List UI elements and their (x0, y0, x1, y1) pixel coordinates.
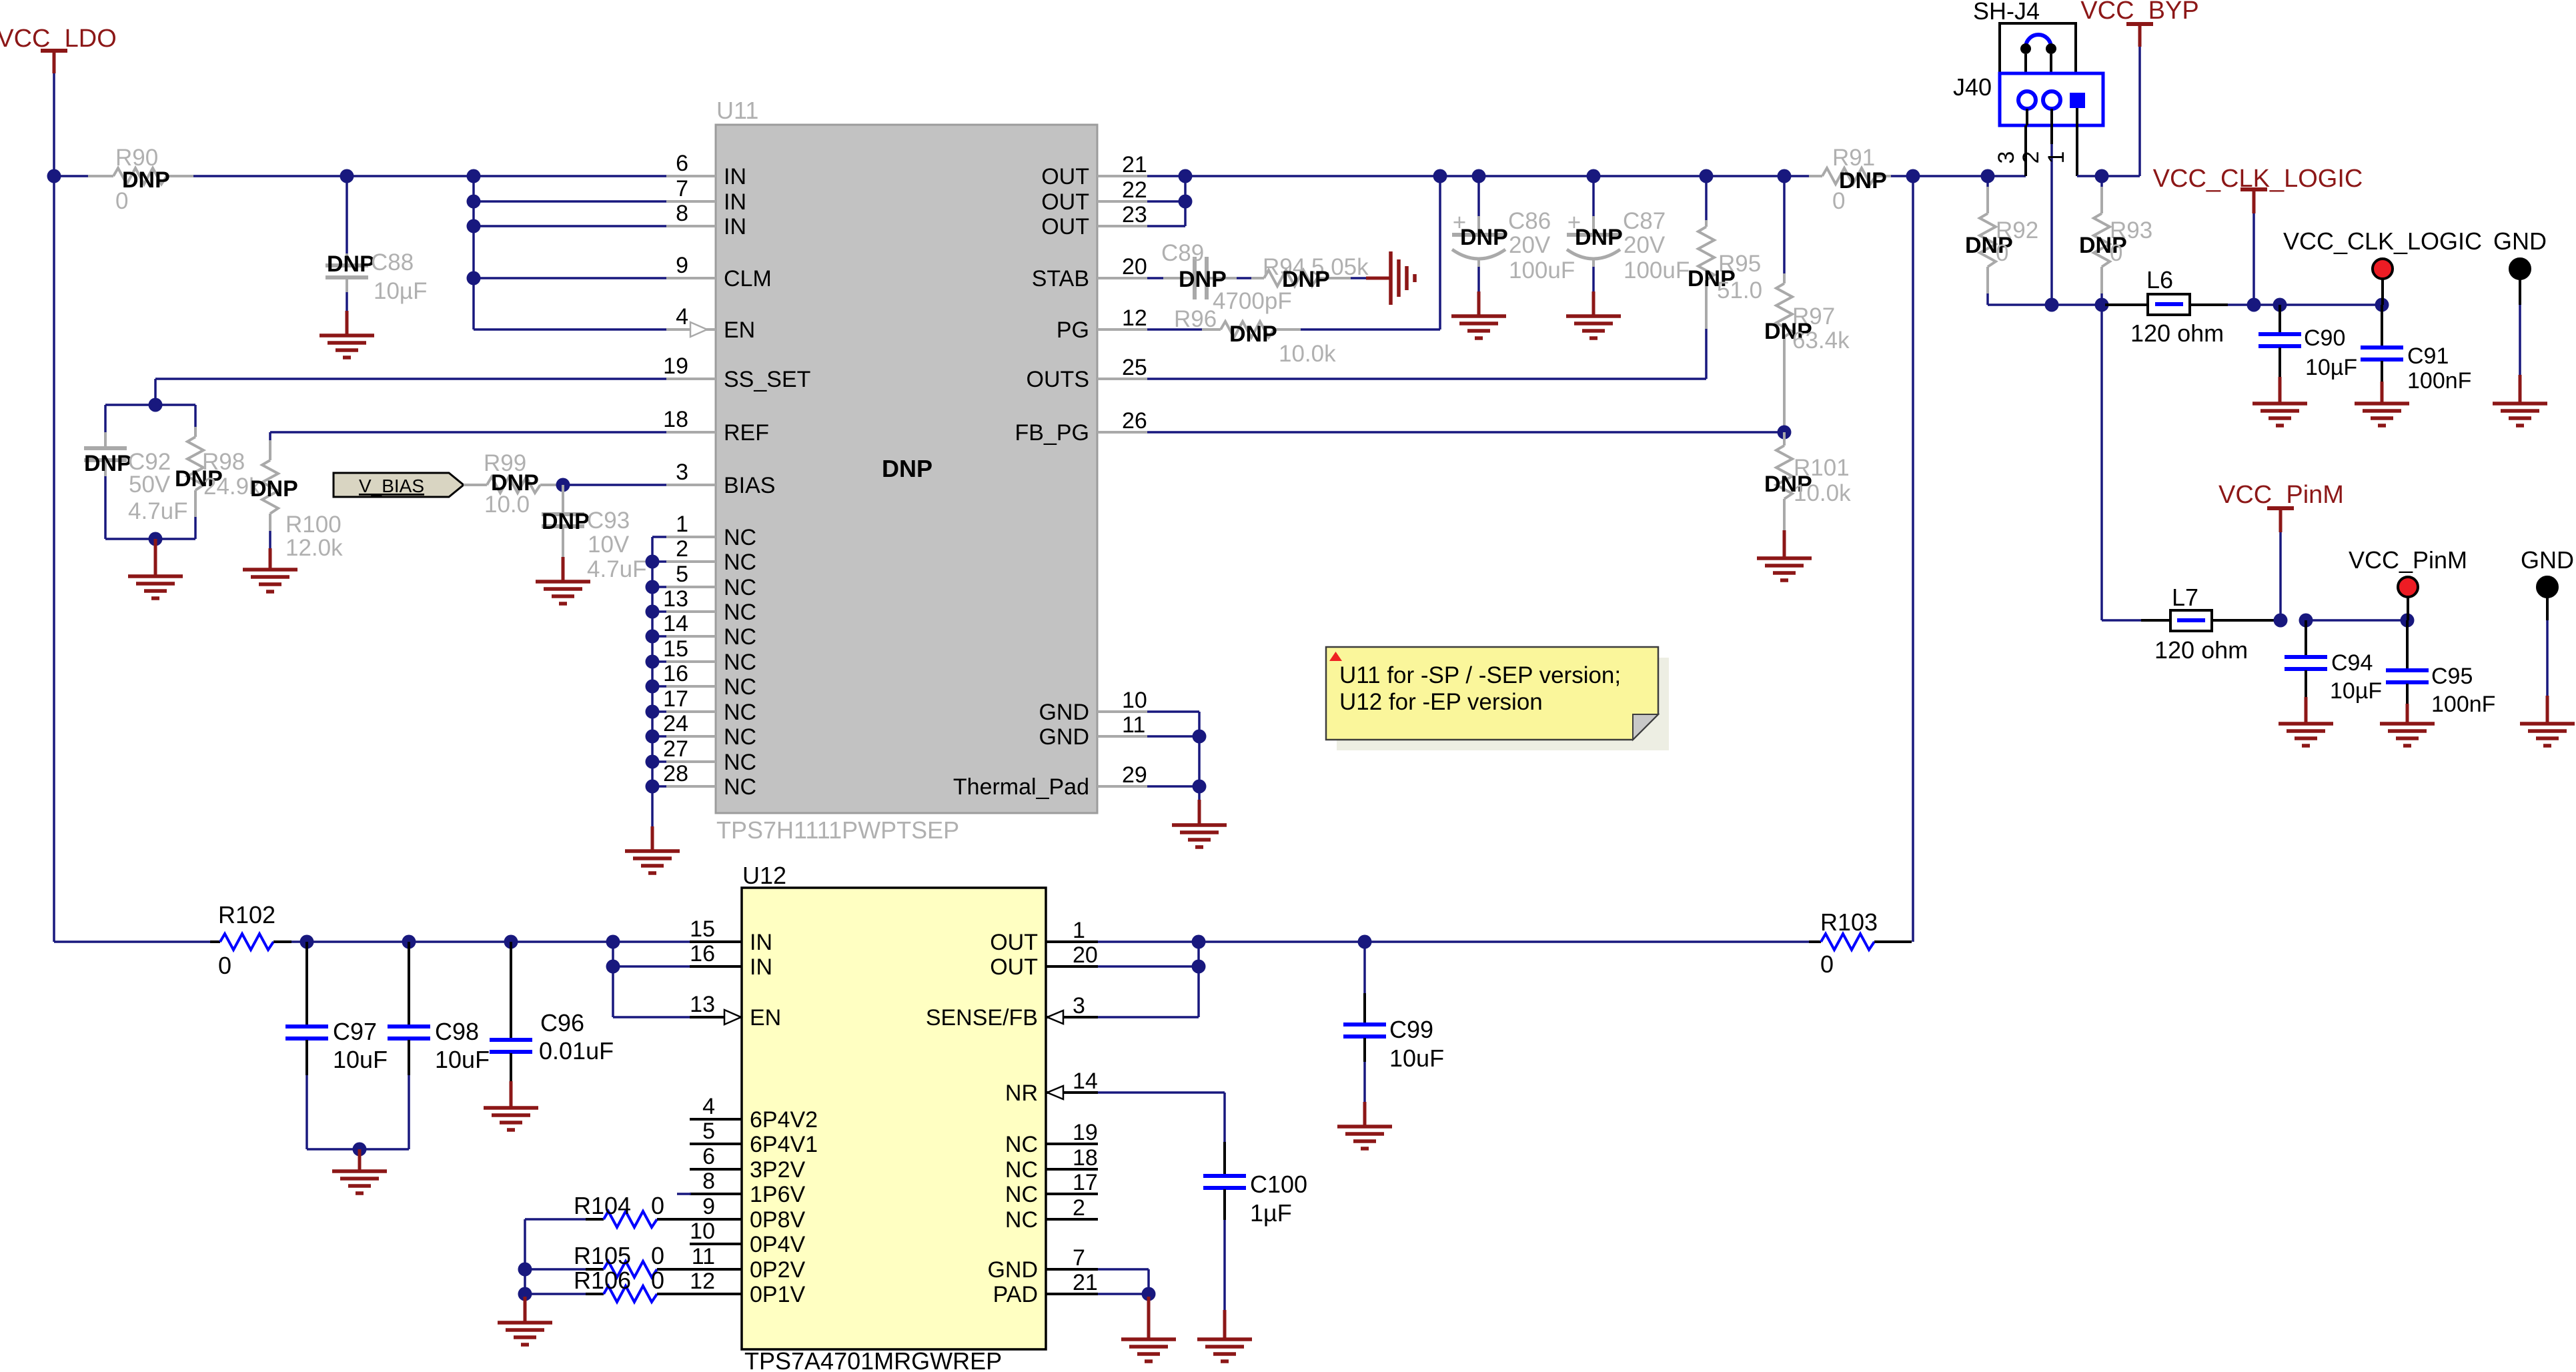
svg-text:DNP: DNP (1839, 168, 1887, 193)
svg-text:15: 15 (690, 916, 715, 942)
svg-text:0.01uF: 0.01uF (539, 1037, 614, 1065)
svg-text:16: 16 (663, 661, 688, 686)
svg-text:10uF: 10uF (1389, 1045, 1444, 1072)
svg-text:6: 6 (676, 151, 688, 176)
svg-text:J40: J40 (1953, 73, 1992, 101)
svg-text:NC: NC (724, 700, 756, 725)
svg-text:4700pF: 4700pF (1213, 288, 1292, 314)
svg-text:13: 13 (690, 992, 715, 1017)
svg-text:23: 23 (1122, 202, 1147, 227)
svg-text:6P4V2: 6P4V2 (750, 1107, 818, 1133)
svg-text:R106: R106 (574, 1267, 631, 1294)
svg-text:C97: C97 (333, 1018, 377, 1045)
svg-text:4.7uF: 4.7uF (587, 556, 647, 582)
svg-text:2: 2 (2018, 151, 2044, 164)
svg-text:GND: GND (1039, 724, 1089, 750)
svg-text:0: 0 (1820, 950, 1834, 978)
svg-text:SH-J4: SH-J4 (1973, 0, 2040, 25)
svg-text:1: 1 (2044, 151, 2069, 164)
svg-text:11: 11 (1122, 712, 1145, 738)
svg-text:U11 for -SP / -SEP version;: U11 for -SP / -SEP version; (1339, 662, 1621, 688)
svg-text:3: 3 (1994, 151, 2019, 164)
svg-text:L6: L6 (2146, 266, 2173, 293)
svg-text:20: 20 (1122, 254, 1147, 279)
svg-text:IN: IN (750, 930, 772, 955)
svg-text:R105: R105 (574, 1242, 631, 1269)
svg-text:NC: NC (1005, 1182, 1038, 1207)
svg-text:DNP: DNP (1575, 225, 1623, 250)
svg-text:R100: R100 (285, 512, 342, 538)
svg-text:5: 5 (702, 1119, 715, 1144)
svg-text:12: 12 (690, 1269, 715, 1294)
svg-text:10µF: 10µF (2305, 355, 2357, 380)
svg-text:3P2V: 3P2V (750, 1157, 805, 1183)
svg-text:20V: 20V (1624, 232, 1666, 258)
svg-text:NR: NR (1005, 1081, 1038, 1106)
svg-text:63.4k: 63.4k (1792, 327, 1850, 354)
svg-text:6P4V1: 6P4V1 (750, 1132, 818, 1157)
svg-text:C94: C94 (2331, 650, 2373, 676)
svg-text:0: 0 (651, 1242, 664, 1269)
svg-text:GND: GND (1039, 700, 1089, 725)
svg-text:C98: C98 (435, 1018, 479, 1045)
svg-text:C90: C90 (2304, 325, 2345, 351)
svg-text:C95: C95 (2431, 664, 2473, 689)
svg-text:NC: NC (724, 624, 756, 650)
svg-text:0P1V: 0P1V (750, 1282, 805, 1307)
svg-text:18: 18 (663, 407, 688, 432)
svg-text:NC: NC (724, 774, 756, 800)
svg-text:DNP: DNP (250, 476, 298, 502)
svg-text:100nF: 100nF (2407, 368, 2471, 394)
svg-text:10: 10 (1122, 688, 1147, 713)
svg-text:C88: C88 (371, 249, 414, 275)
svg-text:17: 17 (663, 686, 688, 712)
svg-text:13: 13 (663, 586, 688, 612)
svg-text:7: 7 (676, 176, 688, 201)
svg-text:DNP: DNP (542, 509, 590, 534)
svg-text:5: 5 (676, 562, 688, 587)
svg-text:1µF: 1µF (1250, 1199, 1292, 1227)
svg-text:IN: IN (750, 954, 772, 980)
svg-text:10V: 10V (588, 532, 630, 558)
svg-text:OUT: OUT (990, 954, 1038, 980)
svg-text:NC: NC (1005, 1207, 1038, 1233)
svg-text:10µF: 10µF (2330, 678, 2382, 704)
svg-text:EN: EN (750, 1005, 781, 1031)
svg-text:C87: C87 (1623, 208, 1666, 234)
svg-text:8: 8 (702, 1169, 715, 1194)
svg-text:4: 4 (676, 304, 688, 329)
svg-text:L7: L7 (2172, 584, 2198, 611)
svg-text:U12 for -EP version: U12 for -EP version (1339, 689, 1543, 715)
svg-text:120 ohm: 120 ohm (2130, 319, 2224, 347)
svg-text:SENSE/FB: SENSE/FB (926, 1005, 1038, 1031)
svg-text:Thermal_Pad: Thermal_Pad (953, 774, 1089, 800)
svg-text:STAB: STAB (1032, 266, 1089, 291)
svg-text:V_BIAS: V_BIAS (359, 476, 424, 496)
svg-text:10: 10 (690, 1219, 715, 1244)
svg-text:100nF: 100nF (2431, 692, 2495, 717)
svg-text:9: 9 (702, 1194, 715, 1219)
svg-text:100uF: 100uF (1624, 257, 1690, 283)
svg-text:NC: NC (724, 750, 756, 775)
svg-text:25: 25 (1122, 355, 1147, 380)
svg-text:7: 7 (1073, 1245, 1085, 1271)
svg-text:C91: C91 (2407, 344, 2449, 369)
svg-text:OUT: OUT (990, 930, 1038, 955)
svg-text:DNP: DNP (84, 451, 132, 476)
svg-text:29: 29 (1122, 762, 1147, 788)
svg-text:10.0k: 10.0k (1279, 341, 1336, 367)
svg-text:IN: IN (724, 214, 746, 239)
svg-text:VCC_PinM: VCC_PinM (2349, 546, 2467, 574)
svg-text:24: 24 (663, 711, 688, 736)
svg-text:U12: U12 (742, 862, 786, 889)
svg-text:VCC_LDO: VCC_LDO (0, 25, 117, 53)
svg-text:C86: C86 (1508, 208, 1551, 234)
svg-text:OUT: OUT (1041, 189, 1089, 215)
svg-text:100uF: 100uF (1509, 257, 1575, 283)
svg-text:REF: REF (724, 420, 769, 446)
svg-text:3: 3 (1073, 993, 1085, 1018)
svg-text:C96: C96 (540, 1009, 584, 1037)
svg-text:DNP: DNP (327, 251, 375, 277)
svg-text:20: 20 (1073, 942, 1098, 968)
svg-text:DNP: DNP (122, 167, 170, 193)
svg-text:11: 11 (692, 1244, 715, 1269)
svg-text:C93: C93 (587, 508, 630, 534)
svg-text:19: 19 (663, 354, 688, 379)
svg-text:2: 2 (1073, 1195, 1085, 1221)
svg-text:NC: NC (724, 724, 756, 750)
svg-text:27: 27 (663, 736, 688, 762)
svg-text:28: 28 (663, 761, 688, 786)
svg-text:NC: NC (1005, 1132, 1038, 1157)
svg-text:EN: EN (724, 317, 755, 343)
svg-text:2: 2 (676, 536, 688, 562)
svg-text:R103: R103 (1820, 908, 1878, 936)
svg-text:NC: NC (724, 550, 756, 575)
svg-text:22: 22 (1122, 177, 1147, 203)
svg-text:TPS7H1111PWPTSEP: TPS7H1111PWPTSEP (716, 816, 959, 844)
svg-text:9: 9 (676, 253, 688, 278)
svg-text:NC: NC (724, 525, 756, 550)
svg-text:0: 0 (115, 188, 128, 214)
svg-text:OUT: OUT (1041, 214, 1089, 239)
svg-text:NC: NC (724, 650, 756, 675)
svg-text:IN: IN (724, 189, 746, 215)
svg-text:10.0: 10.0 (484, 492, 530, 518)
svg-text:10µF: 10µF (374, 278, 427, 304)
svg-text:DNP: DNP (1229, 321, 1277, 347)
svg-text:IN: IN (724, 164, 746, 189)
svg-text:50V: 50V (129, 472, 171, 498)
svg-text:12: 12 (1122, 305, 1147, 331)
svg-text:10.0k: 10.0k (1794, 480, 1851, 506)
svg-text:10uF: 10uF (435, 1046, 490, 1073)
svg-text:VCC_BYP: VCC_BYP (2080, 0, 2198, 25)
svg-text:PAD: PAD (993, 1282, 1038, 1307)
svg-text:6: 6 (702, 1144, 715, 1169)
svg-text:R96: R96 (1174, 306, 1217, 332)
svg-text:SS_SET: SS_SET (724, 367, 810, 392)
svg-text:14: 14 (663, 611, 688, 636)
svg-text:PG: PG (1057, 317, 1089, 343)
svg-text:120 ohm: 120 ohm (2154, 636, 2248, 664)
svg-text:0: 0 (218, 952, 231, 979)
svg-text:17: 17 (1073, 1170, 1098, 1195)
svg-text:0: 0 (1996, 240, 2008, 266)
svg-text:GND: GND (2521, 546, 2574, 574)
svg-text:18: 18 (1073, 1145, 1098, 1171)
svg-text:15: 15 (663, 636, 688, 662)
svg-text:10uF: 10uF (333, 1046, 388, 1073)
svg-text:20V: 20V (1509, 232, 1551, 258)
svg-text:51.0: 51.0 (1717, 277, 1762, 303)
svg-text:1P6V: 1P6V (750, 1182, 805, 1207)
svg-text:U11: U11 (716, 97, 758, 124)
svg-text:VCC_PinM: VCC_PinM (2218, 481, 2344, 509)
svg-text:12.0k: 12.0k (285, 535, 343, 561)
svg-text:DNP: DNP (1460, 225, 1508, 250)
svg-text:0P2V: 0P2V (750, 1257, 805, 1283)
svg-text:C99: C99 (1389, 1016, 1433, 1043)
svg-text:1: 1 (676, 512, 688, 537)
svg-text:R91: R91 (1832, 145, 1875, 171)
svg-text:DNP: DNP (1282, 267, 1330, 292)
svg-text:GND: GND (2493, 227, 2547, 255)
svg-text:C89: C89 (1161, 240, 1204, 266)
svg-text:14: 14 (1073, 1069, 1098, 1094)
svg-text:NC: NC (724, 575, 756, 600)
svg-text:0: 0 (651, 1267, 664, 1294)
svg-text:OUT: OUT (1041, 164, 1089, 189)
svg-text:GND: GND (987, 1257, 1038, 1283)
svg-text:8: 8 (676, 201, 688, 226)
svg-text:19: 19 (1073, 1120, 1098, 1145)
svg-text:21: 21 (1122, 152, 1147, 177)
svg-text:0: 0 (1832, 188, 1845, 214)
svg-text:CLM: CLM (724, 266, 772, 291)
svg-text:C100: C100 (1250, 1171, 1307, 1198)
svg-text:16: 16 (690, 941, 715, 966)
svg-text:1: 1 (1073, 918, 1085, 943)
svg-text:0: 0 (2110, 240, 2122, 266)
svg-text:R102: R102 (218, 901, 275, 928)
svg-text:4.7uF: 4.7uF (128, 498, 188, 524)
svg-text:21: 21 (1073, 1270, 1098, 1295)
svg-text:NC: NC (1005, 1157, 1038, 1183)
svg-text:R104: R104 (574, 1192, 631, 1219)
svg-text:4: 4 (702, 1094, 715, 1119)
svg-text:BIAS: BIAS (724, 473, 775, 498)
svg-text:OUTS: OUTS (1027, 367, 1089, 392)
svg-text:NC: NC (724, 674, 756, 700)
svg-text:3: 3 (676, 460, 688, 485)
svg-text:TPS7A4701MRGWREP: TPS7A4701MRGWREP (744, 1347, 1002, 1372)
svg-text:26: 26 (1122, 408, 1147, 434)
svg-text:VCC_CLK_LOGIC: VCC_CLK_LOGIC (2283, 227, 2482, 255)
svg-text:0: 0 (651, 1192, 664, 1219)
svg-text:DNP: DNP (882, 455, 932, 482)
svg-text:0P4V: 0P4V (750, 1232, 805, 1257)
svg-text:FB_PG: FB_PG (1015, 420, 1089, 446)
svg-text:0P8V: 0P8V (750, 1207, 805, 1233)
svg-text:NC: NC (724, 600, 756, 625)
